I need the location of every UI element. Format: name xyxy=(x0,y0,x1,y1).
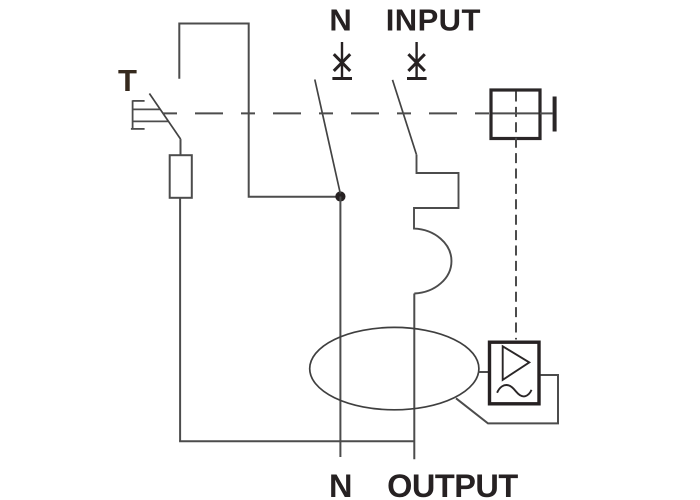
sine symbol xyxy=(497,385,531,396)
mechanism internal bar xyxy=(493,112,539,114)
trip solenoid Y1 on phase line xyxy=(414,155,459,294)
wire: resistor R1 down to bottom rail xyxy=(179,198,181,441)
wire: module output loop to CT winding xyxy=(456,375,558,423)
resistor R1 (test resistor) xyxy=(170,155,192,198)
switch S1 blade (N pole) xyxy=(315,80,341,194)
current transformer CT (toroid) xyxy=(310,327,479,409)
breaker mechanism box K1 xyxy=(491,90,540,139)
wire: CT secondary to module xyxy=(478,371,488,373)
mechanical linkage (horizontal dashed) xyxy=(163,112,491,114)
svg-text:N: N xyxy=(329,468,352,500)
svg-text:INPUT: INPUT xyxy=(386,3,481,38)
wire: mechanism to handle xyxy=(540,112,553,114)
svg-text:N: N xyxy=(329,3,351,38)
wire: blade to resistor R1 xyxy=(180,139,182,155)
node A (junction dot) xyxy=(335,191,345,201)
test switch S3 blade xyxy=(149,94,180,140)
terminal X1 (N input terminal) xyxy=(332,42,352,79)
terminal X2 (INPUT phase terminal) xyxy=(407,42,427,79)
amplifier triangle xyxy=(503,346,530,380)
svg-text:OUTPUT: OUTPUT xyxy=(387,468,518,500)
wire: bottom rail to phase line xyxy=(179,440,414,442)
wire: neutral hook from test contact to junction A xyxy=(179,24,337,197)
electronic module U1 xyxy=(490,342,540,404)
manual handle bar xyxy=(553,97,557,132)
mechanical linkage (vertical dashed) xyxy=(515,92,517,340)
wire: neutral line through CT to N output xyxy=(339,197,341,458)
wire: phase line through CT to OUTPUT xyxy=(413,294,415,460)
switch S2 blade (phase pole) xyxy=(393,80,417,155)
test button S3 actuator bracket xyxy=(131,100,169,129)
svg-text:T: T xyxy=(118,63,137,98)
